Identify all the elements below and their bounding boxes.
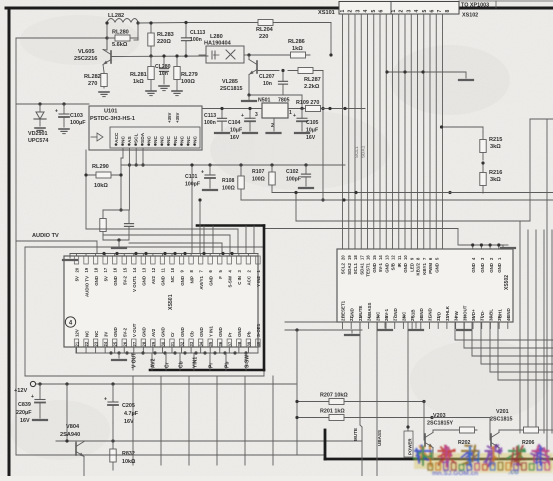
ground C104: [243, 132, 257, 134]
node junction 165 b: [239, 163, 242, 166]
ground VD2101: [35, 127, 45, 129]
wire filter out: [252, 54, 286, 56]
svg-text:15: 15: [122, 267, 127, 272]
wire V203 base feed: [423, 402, 425, 441]
svg-text:26: 26: [122, 341, 127, 346]
inductor LL282: [107, 19, 138, 23]
ground C101: [203, 189, 217, 191]
wire SDA2 riser: [142, 148, 144, 165]
wire power drop: [407, 322, 409, 431]
svg-text:R109 270: R109 270: [296, 100, 319, 106]
node junction C205 top: [111, 382, 114, 385]
svg-text:+: +: [241, 113, 244, 119]
svg-text:HOUT: HOUT: [463, 305, 468, 318]
svg-text:GND: GND: [428, 308, 433, 318]
wire right top box: [530, 118, 553, 120]
resistor RL287: [288, 70, 323, 72]
svg-text:14: 14: [132, 267, 137, 272]
wire AUDIO TV: [16, 240, 97, 242]
svg-text:17: 17: [359, 255, 364, 260]
svg-text:ACC: ACC: [247, 275, 252, 285]
wire pin riser x213: [212, 226, 214, 254]
wire V203 collector: [432, 430, 434, 433]
wire RL290 right riser: [120, 165, 122, 210]
node junction RL279 top: [175, 54, 178, 57]
svg-text:GND: GND: [237, 327, 242, 337]
svg-text:10: 10: [170, 267, 175, 272]
svg-text:11: 11: [397, 255, 402, 260]
svg-text:LED: LED: [409, 263, 414, 272]
wire thick corner bottom: [150, 369, 264, 372]
wire outer box top: [25, 246, 264, 248]
svg-text:GND: GND: [161, 327, 166, 337]
svg-text:R216: R216: [489, 170, 502, 176]
node junction bus gnd 2: [403, 70, 406, 73]
wire XS502 gnd bracket: [459, 244, 503, 246]
svg-text:31: 31: [170, 341, 175, 346]
node junction R215 feed: [440, 125, 443, 128]
svg-text:GND: GND: [94, 276, 99, 286]
node junction R207 left: [295, 400, 298, 403]
svg-text:3V: 3V: [103, 332, 108, 337]
svg-text:SCL1: SCL1: [353, 262, 358, 274]
svg-text:Cr: Cr: [170, 332, 175, 337]
svg-text:+: +: [55, 109, 58, 115]
ground C113 small: [215, 132, 229, 134]
node junction x200: [198, 198, 201, 201]
svg-text:3: 3: [406, 10, 412, 13]
wire SDA riser: [135, 148, 137, 165]
svg-text:1kΩ: 1kΩ: [133, 79, 144, 85]
svg-text:GND: GND: [419, 308, 424, 318]
node junction R109 out: [328, 107, 331, 110]
svg-text:S-SW: S-SW: [228, 275, 233, 287]
node junction 192 a: [354, 191, 357, 194]
svg-text:S-SW: S-SW: [244, 355, 250, 368]
svg-text:TO XP1003: TO XP1003: [461, 3, 489, 9]
ground RL281: [146, 90, 156, 92]
svg-text:RL286: RL286: [288, 39, 305, 45]
svg-text:ACC: ACC: [114, 132, 120, 143]
wire R216 bottom: [450, 192, 483, 194]
node junction C113b: [220, 107, 223, 110]
svg-text:PWM: PWM: [428, 263, 433, 274]
node junction x67: [65, 382, 68, 385]
wire thick corner right: [263, 226, 266, 371]
svg-text:32: 32: [180, 341, 185, 346]
svg-text:LL282: LL282: [108, 13, 124, 19]
svg-text:100μF: 100μF: [70, 120, 86, 126]
wire N501 gnd lead: [273, 118, 275, 131]
capacitor C105: [300, 107, 303, 110]
svg-text:NC: NC: [84, 330, 89, 337]
wire RL287 drop: [322, 71, 324, 201]
ground bus bracket: [459, 79, 473, 81]
svg-text:C205: C205: [122, 403, 135, 409]
capacitor C113 small: [221, 109, 223, 119]
svg-text:GND: GND: [142, 327, 147, 337]
ground RL282: [99, 91, 109, 93]
svg-text:R108: R108: [222, 178, 235, 184]
svg-text:7805: 7805: [278, 98, 290, 104]
ic XS501 circled 4: [65, 317, 75, 327]
ground RL279: [172, 90, 182, 92]
svg-text:NC: NC: [179, 136, 185, 143]
svg-text:10n: 10n: [159, 71, 168, 77]
wire page left border: [8, 8, 11, 476]
svg-text:13: 13: [141, 267, 146, 272]
svg-text:mn.SJ.GOM.cn: mn.SJ.GOM.cn: [432, 470, 478, 476]
node junction R207 right: [422, 400, 425, 403]
node junction 200 a: [342, 198, 345, 201]
svg-text:1: 1: [340, 10, 346, 13]
wire net322: [285, 321, 342, 323]
wire SCL riser: [128, 148, 130, 210]
svg-text:C104: C104: [228, 120, 241, 126]
svg-text:1: 1: [391, 10, 397, 13]
node junction CL280 top: [162, 54, 165, 57]
regulator N501 7805: [262, 103, 288, 118]
svg-text:5V-1: 5V-1: [378, 262, 383, 272]
svg-text:RL283: RL283: [157, 32, 174, 38]
svg-text:AUDIO TV: AUDIO TV: [32, 233, 59, 239]
wire RL290 left riser: [85, 150, 87, 229]
svg-text:6: 6: [379, 10, 385, 13]
ground net330: [351, 330, 353, 333]
svg-text:+12V: +12V: [14, 388, 27, 394]
svg-text:3: 3: [355, 10, 361, 13]
svg-text:Cb: Cb: [178, 361, 184, 368]
capacitor C101: [209, 165, 211, 175]
svg-text:POWER: POWER: [408, 438, 413, 455]
capacitor CL207: [282, 71, 284, 82]
transistor V201: [490, 434, 492, 446]
svg-text:12V: 12V: [75, 329, 80, 337]
svg-text:100pF: 100pF: [286, 177, 301, 183]
node junction net330: [295, 328, 298, 331]
svg-text:YIN1: YIN1: [192, 357, 198, 368]
ic XS502 bottom pins: [342, 322, 344, 329]
ic U101 box: [89, 106, 202, 150]
wire V201 base feed: [432, 417, 490, 419]
svg-text:R206: R206: [522, 440, 535, 446]
capacitor C205: [112, 384, 114, 402]
resistor RC pair R: [102, 210, 104, 240]
node junction RL283 bottom: [149, 54, 152, 57]
wire left rail horizontal: [16, 37, 107, 39]
wire R206 out: [541, 429, 553, 431]
ground C102: [299, 187, 313, 189]
resistor RL280: [107, 37, 138, 39]
wire x67 drop: [66, 384, 68, 441]
svg-text:NC: NC: [166, 136, 172, 143]
wire net 221: [296, 220, 530, 222]
resistor R216: [482, 165, 484, 193]
svg-text:+35V: +35V: [175, 113, 180, 123]
svg-text:12: 12: [151, 267, 156, 272]
svg-text:6: 6: [430, 10, 436, 13]
svg-text:25: 25: [113, 341, 118, 346]
svg-text:13: 13: [384, 255, 389, 260]
wire pin riser x204: [203, 226, 205, 254]
svg-text:N/P: N/P: [189, 276, 194, 283]
svg-text:AV2: AV2: [151, 328, 156, 337]
wire VL285 emitter: [248, 75, 250, 96]
svg-text:16V: 16V: [20, 418, 30, 424]
svg-text:ABL: ABL: [489, 309, 494, 318]
resistor RL204: [255, 22, 276, 24]
svg-text:2SC1815: 2SC1815: [490, 417, 512, 423]
svg-text:NC: NC: [94, 330, 99, 337]
svg-text:S/B: S/B: [391, 263, 396, 270]
svg-text:GND: GND: [372, 263, 377, 273]
svg-text:4: 4: [363, 10, 369, 13]
ic XS501 box: [64, 256, 258, 347]
svg-text:XS102: XS102: [462, 13, 478, 19]
node junction 165 a: [208, 163, 211, 166]
svg-text:RL290: RL290: [92, 164, 109, 170]
ground VL285 emitter: [248, 95, 250, 100]
wire left rail vertical: [15, 38, 17, 455]
svg-text:Y IN1: Y IN1: [208, 326, 213, 337]
svg-text:20: 20: [341, 255, 346, 260]
svg-text:GND: GND: [180, 327, 185, 337]
node XS501 bottom pin junctions: [109, 351, 112, 354]
svg-text:Cb: Cb: [189, 331, 194, 337]
node junction 165 d: [304, 163, 307, 166]
svg-text:17: 17: [103, 267, 108, 272]
svg-text:NC: NC: [192, 136, 198, 143]
wire pin riser x254: [253, 226, 255, 254]
node junction x192: [190, 163, 193, 166]
svg-text:10kΩ: 10kΩ: [94, 183, 108, 189]
ground N501: [267, 132, 281, 134]
svg-text:RL279: RL279: [181, 72, 198, 78]
ground XS502 bottom pins: [384, 322, 386, 328]
diode VD2101: [39, 104, 41, 112]
svg-text:S-OE1: S-OE1: [256, 323, 261, 337]
wire bottom thin rail: [16, 454, 325, 456]
svg-text:VL605: VL605: [78, 49, 94, 55]
svg-text:GND: GND: [384, 263, 389, 273]
svg-text:V OUT1: V OUT1: [132, 275, 137, 291]
svg-text:C105: C105: [306, 120, 319, 126]
svg-text:2SC2216: 2SC2216: [74, 56, 97, 62]
resistor RL283: [150, 23, 152, 56]
wire thick corner top: [197, 224, 264, 227]
svg-text:GND: GND: [480, 263, 485, 273]
svg-text:100pF: 100pF: [185, 182, 200, 188]
node junction R201 left: [295, 416, 298, 419]
svg-text:GND: GND: [403, 263, 408, 273]
svg-text:10: 10: [403, 255, 408, 260]
svg-text:CL280: CL280: [155, 64, 171, 70]
svg-text:V OUT: V OUT: [132, 323, 137, 337]
filter L280 HA190404: [206, 46, 244, 63]
ic U101 pin box: [110, 127, 200, 148]
svg-text:AUDIO TV: AUDIO TV: [84, 276, 89, 297]
svg-text:R207 10kΩ: R207 10kΩ: [320, 393, 348, 399]
svg-text:100n: 100n: [190, 37, 202, 43]
svg-text:SCL: SCL: [133, 133, 139, 143]
transistor V804: [75, 443, 77, 455]
node junction bus gnd 3: [421, 70, 424, 73]
svg-text:40: 40: [256, 341, 261, 346]
svg-text:2: 2: [399, 10, 405, 13]
svg-text:R201 1kΩ: R201 1kΩ: [320, 409, 345, 415]
svg-text:Pb: Pb: [224, 362, 230, 368]
resistor R107: [271, 165, 273, 192]
svg-text:N501: N501: [258, 98, 271, 104]
capacitor C839: [39, 384, 41, 400]
svg-text:KBY1: KBY1: [422, 262, 427, 274]
svg-text:3kΩ: 3kΩ: [490, 144, 501, 150]
resistor RL282: [103, 72, 105, 88]
svg-text:GND: GND: [489, 263, 494, 273]
svg-text:UBASS: UBASS: [367, 303, 372, 318]
svg-text:19: 19: [347, 255, 352, 260]
node junction rail: [105, 36, 108, 39]
svg-text:CL207: CL207: [259, 74, 275, 80]
svg-text:12: 12: [391, 255, 396, 260]
svg-text:SDA1: SDA1: [359, 262, 364, 274]
ground XS501 exit: [118, 353, 120, 358]
capacitor C104: [249, 109, 251, 119]
node junction C103 top: [62, 102, 65, 105]
svg-text:V804: V804: [66, 424, 80, 430]
svg-text:U101: U101: [104, 109, 117, 115]
svg-text:S1B: S1B: [410, 309, 415, 318]
svg-text:100Ω: 100Ω: [181, 79, 195, 85]
svg-text:RL287: RL287: [304, 77, 321, 83]
wire VL285 collector: [248, 55, 250, 60]
wire +12V rail: [36, 383, 296, 385]
wire main rail: [202, 108, 365, 110]
wire bottom vertical buses: [132, 376, 134, 465]
svg-text:R215: R215: [489, 137, 502, 143]
svg-text:UBASS: UBASS: [377, 430, 382, 446]
node junction RL290 right: [119, 173, 122, 176]
node junction CL113 bottom: [184, 54, 187, 57]
svg-text:RL204: RL204: [256, 27, 274, 33]
wire VL605 base: [111, 55, 208, 58]
wire page top border: [6, 7, 340, 10]
svg-text:CL113: CL113: [190, 30, 205, 36]
svg-text:NC: NC: [147, 136, 153, 143]
node junction rail end: [343, 107, 346, 110]
svg-text:33: 33: [189, 341, 194, 346]
resistor RL281: [150, 56, 152, 90]
ic XS501 bottom pins: [74, 339, 78, 347]
wire net 224: [264, 228, 458, 230]
svg-text:VD2101: VD2101: [28, 131, 47, 137]
svg-text:23: 23: [94, 341, 99, 346]
wire AS riser: [122, 148, 124, 158]
wire RC pair top: [103, 209, 129, 211]
svg-text:C113: C113: [204, 113, 216, 119]
svg-text:RL281: RL281: [130, 72, 147, 78]
svg-text:GND: GND: [208, 276, 213, 286]
node junction 221: [294, 191, 297, 194]
wire page top border right segment: [459, 7, 553, 10]
node junction VD2101 top: [38, 102, 41, 105]
svg-text:38: 38: [237, 341, 242, 346]
wire RC gnd lead: [118, 240, 120, 246]
node junction RL290 left: [84, 173, 87, 176]
svg-text:GND: GND: [506, 308, 511, 318]
wire V804 row: [56, 440, 362, 442]
wire LL282 left node: [106, 22, 108, 50]
svg-text:16V: 16V: [124, 419, 134, 425]
wire pin riser net243: [129, 242, 222, 244]
svg-text:Cr: Cr: [164, 362, 170, 368]
svg-text:C IN: C IN: [237, 276, 242, 285]
node TO XP1003 label: [459, 0, 553, 2]
svg-text:C101: C101: [185, 174, 198, 180]
svg-text:20: 20: [75, 267, 80, 272]
wire outer box right thin: [263, 370, 265, 376]
svg-text:KB1/2: KB1/2: [416, 262, 421, 275]
svg-text:5V: 5V: [75, 276, 80, 281]
svg-text:GND: GND: [349, 308, 354, 318]
svg-text:UPC574: UPC574: [28, 138, 48, 144]
svg-text:F: F: [218, 276, 223, 279]
svg-text:MUTE: MUTE: [353, 428, 358, 441]
svg-text:GND: GND: [199, 327, 204, 337]
svg-text:VD+: VD+: [471, 309, 476, 318]
wire net 165: [121, 164, 345, 166]
svg-text:VHLK: VHLK: [445, 305, 450, 318]
svg-text:5: 5: [371, 10, 377, 13]
wire x297 drop: [296, 330, 298, 455]
svg-text:10μF: 10μF: [230, 128, 242, 134]
capacitor C103: [63, 104, 65, 114]
svg-text:XS101: XS101: [318, 10, 335, 16]
svg-text:GND: GND: [471, 263, 476, 273]
svg-text:Pr: Pr: [228, 332, 233, 337]
wire pin riser x200: [199, 200, 201, 254]
svg-text:PSTDC-3H3-HS-1: PSTDC-3H3-HS-1: [90, 116, 135, 122]
svg-text:HA190404: HA190404: [204, 41, 232, 47]
svg-text:VD-: VD-: [480, 310, 485, 318]
resistor RL290: [86, 174, 121, 176]
node junction R201 right: [430, 416, 433, 419]
svg-text:V203: V203: [433, 413, 446, 419]
svg-text:TEST1: TEST1: [366, 262, 371, 276]
svg-text:24: 24: [103, 341, 108, 346]
svg-text:5V-1: 5V-1: [384, 308, 389, 318]
svg-text:GND: GND: [113, 327, 118, 337]
ground XS502 bracket: [501, 247, 515, 249]
svg-text:.co: .co: [508, 467, 519, 476]
svg-text:SCL1: SCL1: [354, 146, 359, 158]
svg-text:GND: GND: [142, 276, 147, 286]
node junction RL287 RL204: [329, 53, 332, 56]
wire bus ground stub: [387, 71, 466, 73]
svg-text:5.6kΩ: 5.6kΩ: [112, 42, 128, 48]
ground C103: [59, 128, 69, 130]
svg-text:C103: C103: [70, 113, 83, 119]
node XS502 bracket pins: [472, 245, 474, 249]
svg-text:Y IN2: Y IN2: [256, 275, 261, 286]
svg-text:7: 7: [437, 10, 443, 13]
svg-text:AV2: AV2: [151, 275, 156, 284]
svg-text:2SC1815Y: 2SC1815Y: [427, 421, 453, 427]
svg-text:100Ω: 100Ω: [222, 186, 235, 192]
svg-text:270: 270: [88, 81, 97, 87]
svg-text:NC: NC: [186, 136, 192, 143]
wire net 192: [272, 192, 553, 194]
